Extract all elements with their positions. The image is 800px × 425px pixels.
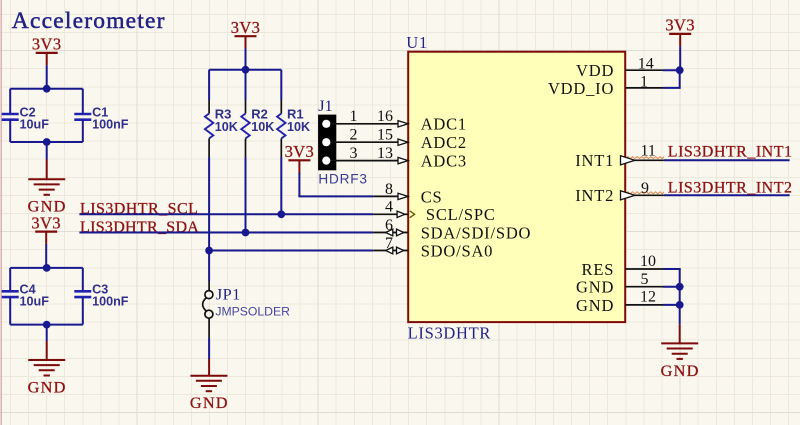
pin arrow input <box>398 193 408 199</box>
svg-text:GND: GND <box>576 296 614 315</box>
wire <box>45 244 47 268</box>
svg-text:8: 8 <box>385 181 393 198</box>
wire CS horizontal <box>298 195 373 197</box>
connector J1 body <box>318 115 336 171</box>
svg-text:3: 3 <box>350 145 358 162</box>
jumper JP1 <box>203 291 213 319</box>
svg-text:Accelerometer: Accelerometer <box>12 8 166 34</box>
svg-text:10: 10 <box>640 253 656 270</box>
pin arrow IO pair <box>386 229 393 236</box>
wire bottom bus <box>10 324 83 326</box>
pin JP1 top lead <box>208 281 210 291</box>
wire net SCL <box>79 213 373 215</box>
power 3V3 VDD <box>665 16 695 47</box>
svg-text:LIS3DHTR_INT1: LIS3DHTR_INT1 <box>668 143 793 160</box>
svg-text:GND: GND <box>661 361 700 380</box>
pin J1 pad 3 <box>322 157 330 165</box>
svg-text:12: 12 <box>640 288 656 305</box>
wire <box>679 46 681 70</box>
svg-text:JMPSOLDER: JMPSOLDER <box>215 304 290 318</box>
component U1 LIS3DHTR body <box>408 52 625 322</box>
svg-text:13: 13 <box>377 145 393 162</box>
svg-text:J1: J1 <box>318 96 332 115</box>
error squiggle 9 <box>621 192 664 194</box>
node junction <box>242 66 250 74</box>
svg-text:11: 11 <box>641 143 656 160</box>
node junction R1/SCL <box>277 210 285 218</box>
svg-text:INT1: INT1 <box>575 151 614 170</box>
svg-text:3V3: 3V3 <box>665 16 695 35</box>
svg-text:INT2: INT2 <box>575 186 614 205</box>
wire INT2 <box>664 194 790 196</box>
power 3V3 top-left <box>32 35 62 65</box>
svg-text:15: 15 <box>377 127 393 144</box>
wire gnd stem right <box>679 324 681 343</box>
svg-text:HDRF3: HDRF3 <box>318 171 367 186</box>
wire gnd stem <box>46 160 48 180</box>
svg-text:LIS3DHTR: LIS3DHTR <box>408 323 492 342</box>
wire SDO/SA0 row <box>209 250 373 252</box>
node junction <box>43 264 51 272</box>
ground GND top-left <box>28 179 67 215</box>
capacitor C1 <box>74 89 129 142</box>
ground GND right <box>661 343 700 379</box>
svg-text:3V3: 3V3 <box>285 142 315 161</box>
svg-text:10uF: 10uF <box>20 117 50 131</box>
pin J1 pad 1 <box>322 120 330 128</box>
wire <box>46 142 48 160</box>
pin lead 5 <box>626 286 664 288</box>
capacitor C3 <box>74 268 129 325</box>
power 3V3 CS <box>285 142 315 173</box>
wire top bus <box>10 88 83 90</box>
pin lead 1 <box>626 87 664 89</box>
node junction R3/SDO <box>205 247 213 255</box>
node junction <box>43 85 51 93</box>
svg-text:VDD: VDD <box>576 61 614 80</box>
wire <box>208 338 210 359</box>
svg-text:3V3: 3V3 <box>31 213 61 232</box>
pin arrow input <box>398 139 408 145</box>
wire CS vertical <box>298 173 300 197</box>
svg-text:5: 5 <box>641 271 649 288</box>
node junction 5 <box>676 283 684 291</box>
pin J1-1 lead <box>330 123 408 125</box>
wire <box>245 49 247 70</box>
capacitor C2 <box>2 89 50 142</box>
svg-text:LIS3DHTR_INT2: LIS3DHTR_INT2 <box>668 179 793 196</box>
svg-text:GND: GND <box>28 377 67 396</box>
svg-text:JP1: JP1 <box>216 285 241 304</box>
wire resistor bus <box>209 69 281 71</box>
capacitor C4 <box>2 268 50 325</box>
wire gnd stem mid <box>208 359 210 376</box>
wire INT1 <box>664 159 790 161</box>
node junction VDD <box>676 66 684 74</box>
svg-text:3V3: 3V3 <box>231 18 261 37</box>
pin arrow INT2 <box>621 191 635 200</box>
node junction R2/SDA <box>242 229 250 237</box>
wire GND5 <box>663 286 680 288</box>
pin J1-2 lead <box>330 141 408 143</box>
pin lead 14 <box>626 69 664 71</box>
svg-text:10K: 10K <box>287 120 310 134</box>
error squiggle 11 <box>621 157 664 159</box>
wire VDD <box>663 69 680 71</box>
pin lead 9 <box>629 194 664 196</box>
svg-text:4: 4 <box>385 199 393 216</box>
pin JP1 bottom lead <box>208 318 210 338</box>
wire RES <box>663 268 681 270</box>
svg-text:GND: GND <box>190 393 229 412</box>
svg-text:10K: 10K <box>215 120 238 134</box>
node junction 12 <box>676 301 684 309</box>
ground GND mid <box>190 376 229 412</box>
pin arrow INT1 <box>621 156 635 165</box>
svg-text:16: 16 <box>377 108 393 125</box>
wire <box>46 325 48 341</box>
resistor R3 <box>205 70 238 251</box>
wire VDD_IO L <box>663 70 680 88</box>
wire JP1 top <box>208 251 210 282</box>
svg-text:1: 1 <box>640 73 648 90</box>
svg-text:GND: GND <box>576 278 614 297</box>
svg-text:U1: U1 <box>406 33 428 52</box>
svg-text:1: 1 <box>350 108 358 125</box>
svg-text:10uF: 10uF <box>20 295 50 309</box>
resistor R2 <box>241 70 274 233</box>
pin inner chevron SCL <box>410 211 415 218</box>
pin J1 pad 2 <box>322 138 330 146</box>
ground GND bottom-left <box>28 360 67 396</box>
wire <box>46 65 48 89</box>
pin lead 11 <box>629 159 664 161</box>
pin lead 10 <box>626 268 664 270</box>
svg-text:ADC2: ADC2 <box>421 133 467 152</box>
svg-text:100nF: 100nF <box>92 295 129 309</box>
wire <box>298 173 300 174</box>
pin lead <box>373 250 408 252</box>
power 3V3 bottom-left <box>31 213 61 244</box>
pin lead <box>373 195 408 197</box>
node junction <box>43 321 51 329</box>
pin J1-3 lead <box>330 160 408 162</box>
svg-text:14: 14 <box>638 55 654 72</box>
sheet border left edge <box>0 0 2 425</box>
svg-text:CS: CS <box>421 187 443 206</box>
wire bottom bus <box>10 141 83 143</box>
pin arrow input <box>398 157 408 163</box>
pin lead <box>373 213 408 215</box>
svg-text:ADC3: ADC3 <box>421 152 467 171</box>
wire gnd vertical <box>679 269 681 324</box>
resistor R1 <box>277 70 310 215</box>
svg-text:9: 9 <box>641 180 649 197</box>
svg-text:LIS3DHTR_SDA: LIS3DHTR_SDA <box>80 219 199 236</box>
power 3V3 resistors <box>231 18 261 49</box>
pin lead <box>373 232 408 234</box>
wire gnd stem <box>46 341 48 360</box>
pin lead 12 <box>626 304 664 306</box>
pin arrow IO SCL <box>397 211 405 217</box>
svg-text:RES: RES <box>582 260 615 279</box>
svg-text:10K: 10K <box>251 120 274 134</box>
node junction <box>43 138 51 146</box>
wire GND12 <box>663 304 680 306</box>
svg-text:SCL/SPC: SCL/SPC <box>426 205 496 224</box>
svg-text:2: 2 <box>350 127 358 144</box>
svg-text:SDA/SDI/SDO: SDA/SDI/SDO <box>421 223 532 242</box>
svg-text:SDO/SA0: SDO/SA0 <box>421 241 494 260</box>
svg-text:ADC1: ADC1 <box>421 115 467 134</box>
wire top bus <box>10 267 83 269</box>
pin arrow IO pair <box>386 247 393 254</box>
svg-text:3V3: 3V3 <box>32 35 62 54</box>
svg-text:VDD_IO: VDD_IO <box>548 79 614 98</box>
wire net SDA <box>79 232 373 234</box>
pin arrow input <box>398 121 408 127</box>
svg-text:100nF: 100nF <box>92 117 129 131</box>
